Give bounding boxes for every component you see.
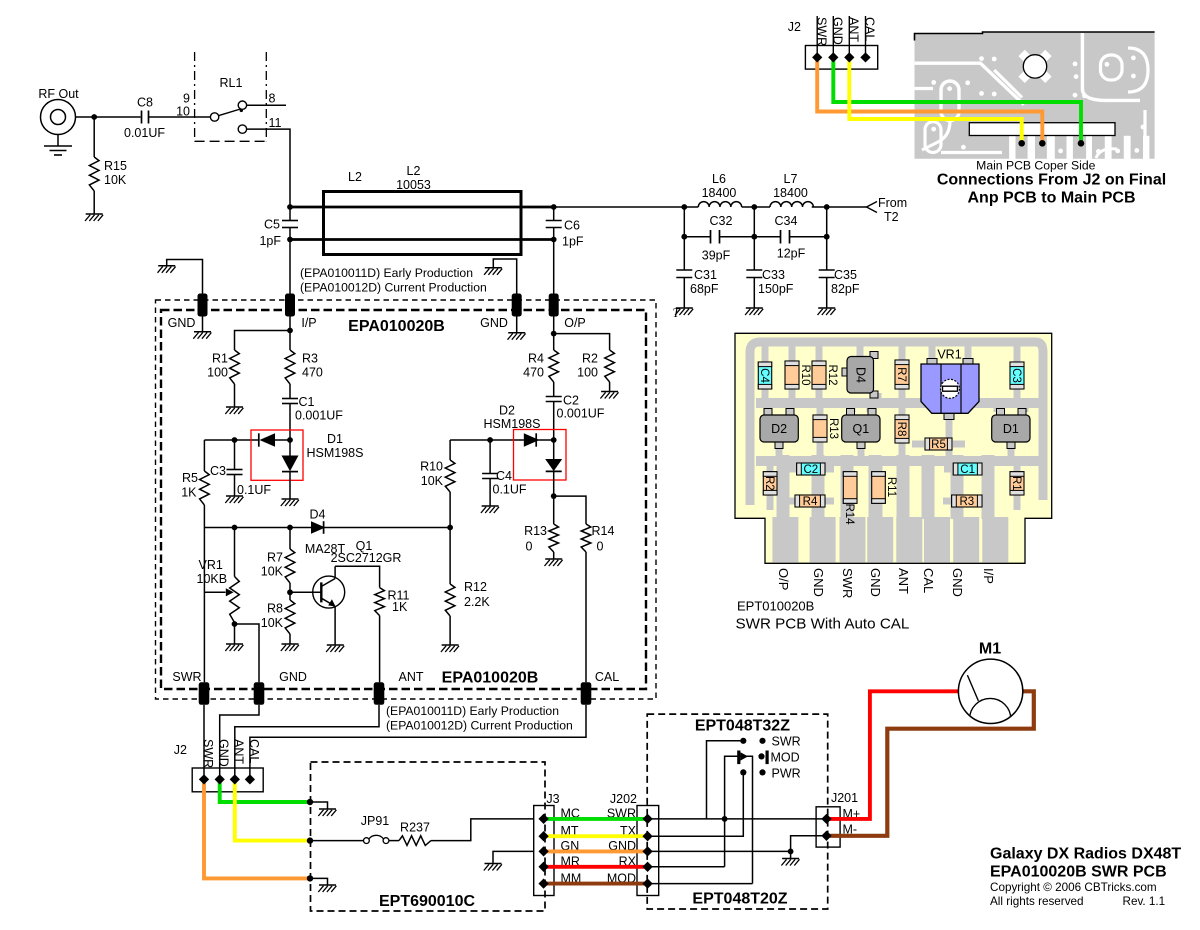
capacitor C33 150pF — [746, 268, 794, 308]
PCB part R4 — [795, 495, 825, 508]
resistor R237 — [399, 821, 431, 846]
PCB part R3 — [952, 495, 982, 508]
RL1 pin labels 9 10 8 11 — [176, 92, 281, 131]
wire D2 row — [450, 439, 524, 441]
ground under R15 — [86, 213, 103, 215]
ground under left GND terminal — [194, 331, 211, 333]
ground under R12 — [442, 644, 459, 646]
resistor R14 0 — [581, 524, 614, 554]
svg-text:C2: C2 — [803, 464, 818, 476]
J2 rotated pin labels SWR GND ANT CAL — [814, 17, 876, 46]
ground stub green — [310, 802, 328, 809]
svg-text:R10: R10 — [799, 364, 811, 385]
node D1 center — [287, 437, 293, 443]
svg-text:C6: C6 — [564, 219, 580, 233]
wire GND terminal to J2 — [220, 705, 259, 780]
wire yellow TX J3 to J202 — [545, 834, 648, 838]
Main PCB outline edge — [915, 32, 1155, 41]
wire R14 branch — [554, 496, 586, 524]
wire RF node to C8 — [94, 116, 140, 118]
pad dot SWR right — [759, 738, 765, 744]
wire R2 branch — [554, 334, 610, 350]
wire D1 row — [204, 439, 258, 441]
svg-text:VR1: VR1 — [937, 348, 961, 362]
capacitor C34 12pF — [754, 214, 826, 261]
ground under Q1 emitter — [327, 644, 344, 646]
PCB part R10 — [785, 361, 811, 389]
svg-text:R4: R4 — [528, 352, 544, 366]
wire RL1 pin 8 stub — [247, 104, 286, 106]
svg-text:SWR: SWR — [814, 17, 828, 46]
EPT010020B pin labels — [776, 568, 996, 598]
label D2 HSM198S — [484, 404, 541, 432]
solder dot yellow wire — [1018, 140, 1025, 147]
wire R11 to ANT terminal — [379, 616, 381, 683]
svg-text:(EPA010011D) Early Production: (EPA010011D) Early Production — [300, 266, 473, 280]
svg-text:(EPA010012D) Current Productio: (EPA010012D) Current Production — [300, 281, 487, 295]
wire R5 bottom — [203, 505, 205, 528]
svg-text:R10: R10 — [420, 460, 443, 474]
node D2 center — [551, 437, 557, 443]
J2 connector box — [805, 46, 877, 70]
svg-text:From: From — [878, 196, 907, 210]
svg-text:R11: R11 — [885, 477, 897, 497]
PCB part R7 — [895, 360, 909, 389]
wire RL1 pin 11 to C5 node — [247, 129, 290, 207]
node L6 left — [681, 204, 687, 210]
node yellow wire end — [307, 837, 313, 843]
relay RL1 dashed box — [195, 52, 267, 141]
svg-text:C1: C1 — [299, 395, 315, 409]
wire node down C33 col — [753, 207, 755, 270]
ground under C35 — [818, 307, 835, 309]
resistor R2 100 — [577, 350, 614, 382]
svg-text:1pF: 1pF — [259, 234, 281, 248]
terminal GND (top-right) — [480, 294, 522, 331]
svg-text:SWR PCB With Auto CAL: SWR PCB With Auto CAL — [736, 616, 910, 633]
ground under R8 — [282, 643, 299, 645]
svg-text:18400: 18400 — [702, 186, 737, 200]
svg-text:R5: R5 — [182, 471, 198, 485]
wire red RX J3 to J202 — [545, 865, 648, 869]
capacitor C3 0.1UF — [210, 440, 271, 497]
svg-text:Copyright © 2006 CBTricks.com: Copyright © 2006 CBTricks.com — [990, 881, 1157, 894]
RL1 switch blade — [219, 109, 243, 116]
connector J201 box — [816, 807, 840, 847]
node R10/R12/D4 junction — [447, 525, 453, 531]
svg-text:10: 10 — [176, 105, 190, 119]
capacitor C2 0.001UF — [546, 382, 605, 440]
diode D2 horizontal (points right) — [524, 433, 554, 446]
connector J202 box — [637, 806, 659, 896]
wire R1 branch — [235, 331, 291, 351]
svg-text:R15: R15 — [104, 159, 127, 173]
svg-text:C2: C2 — [563, 394, 579, 408]
node VR1 top — [232, 525, 238, 531]
svg-text:C3: C3 — [1010, 368, 1022, 383]
EPT010020B board outline — [735, 333, 1052, 563]
svg-text:SWR: SWR — [172, 670, 201, 684]
L2 primary line — [290, 206, 554, 209]
svg-text:2SC2712GR: 2SC2712GR — [331, 551, 402, 565]
PCB part R11 — [872, 472, 897, 504]
svg-text:CAL: CAL — [595, 670, 619, 684]
svg-text:J3: J3 — [546, 792, 559, 806]
capacitor C5 1pF — [259, 207, 298, 248]
svg-text:R8: R8 — [895, 422, 907, 437]
svg-text:GND: GND — [279, 670, 307, 684]
PCB part D4 — [842, 352, 878, 399]
svg-text:GND: GND — [480, 316, 508, 330]
label D1 HSM198S — [307, 432, 364, 460]
wire brown MOD J3 to J202 — [545, 882, 648, 886]
pad dot PWR right — [759, 769, 765, 775]
svg-text:Q1: Q1 — [853, 422, 870, 436]
node R1 branch — [287, 328, 293, 334]
J201 pin M+ — [821, 814, 831, 824]
wire TX row riser to PWR — [648, 772, 744, 836]
wire orange J2 SWR to PCB — [817, 57, 1042, 143]
wire SWR rail — [203, 528, 205, 683]
resistor R1 100 — [207, 350, 239, 384]
red box around D1 — [251, 430, 303, 480]
J3 pin MM — [538, 878, 548, 888]
resistor R5 1K — [181, 471, 209, 505]
wire SWR jumper riser — [707, 741, 741, 819]
wire Q1 base — [290, 591, 321, 593]
ground near J3 — [485, 863, 502, 865]
svg-text:CAL: CAL — [921, 568, 936, 593]
resistor R11 1K — [375, 588, 410, 616]
J2 bottom connector box — [192, 768, 263, 792]
svg-text:C4: C4 — [496, 469, 512, 483]
terminal SWR — [172, 670, 209, 705]
ground under D1 — [282, 498, 299, 500]
svg-text:R3: R3 — [959, 496, 974, 508]
node C34 right — [824, 234, 830, 240]
resistor R4 470 — [523, 350, 558, 382]
svg-text:Main PCB Coper Side: Main PCB Coper Side — [976, 159, 1095, 173]
svg-text:D1: D1 — [1003, 422, 1019, 436]
potentiometer VR1 10KB — [197, 528, 240, 623]
wire R2 to ground — [609, 382, 611, 392]
svg-text:0.01UF: 0.01UF — [124, 126, 165, 140]
node R7 top — [287, 525, 293, 531]
wire O/P drop from L2 — [553, 240, 555, 295]
svg-text:2.2K: 2.2K — [464, 595, 490, 609]
diode D1 horizontal (points left) — [259, 433, 290, 446]
svg-text:39pF: 39pF — [702, 249, 731, 263]
MOD plug symbol right — [758, 751, 768, 765]
svg-text:8: 8 — [269, 92, 276, 106]
wire green SWR J3 to J202 — [545, 817, 648, 821]
svg-text:D4: D4 — [853, 367, 867, 383]
svg-text:L7: L7 — [784, 172, 798, 186]
svg-text:MOD: MOD — [771, 751, 800, 765]
svg-text:R1: R1 — [1010, 476, 1022, 491]
node C6 top — [551, 204, 557, 210]
svg-text:L2: L2 — [348, 170, 362, 184]
wire GND row to J201 M- — [791, 836, 827, 852]
J2 bottom pin 2 — [215, 774, 225, 784]
terminal GND (bottom) — [254, 670, 307, 705]
solder dot green wire — [1078, 140, 1085, 147]
node L7 right — [824, 204, 830, 210]
node C5 bottom — [287, 237, 293, 243]
connector J3 box — [534, 806, 554, 896]
wire SWR row to J201 M+ — [648, 818, 827, 820]
svg-text:C33: C33 — [762, 268, 785, 282]
capacitor C35 82pF — [819, 268, 860, 308]
solder dot orange wire — [1039, 140, 1046, 147]
svg-text:GND: GND — [168, 316, 196, 330]
svg-text:R7: R7 — [267, 551, 283, 565]
J3 pin MT — [538, 831, 548, 841]
J202 pin MOD — [642, 878, 652, 888]
svg-text:I/P: I/P — [981, 568, 996, 584]
svg-text:0.1UF: 0.1UF — [237, 483, 271, 497]
ground under R13 — [545, 558, 562, 560]
node L6/L7 junction — [751, 204, 757, 210]
ground under VR1 — [226, 643, 243, 645]
PCB part C2 — [797, 463, 825, 476]
PCB part R1 — [1010, 472, 1024, 495]
svg-text:EPT048T32Z: EPT048T32Z — [695, 718, 790, 735]
svg-text:EPT010020B: EPT010020B — [737, 598, 814, 613]
diode D1 vertical (points down) — [282, 440, 299, 499]
RL1 switch contacts — [210, 101, 246, 133]
node orange wire end — [307, 875, 313, 881]
connector RF Out (coax jack) — [38, 87, 94, 135]
outer dashed box (EPA010011D/12D) — [156, 300, 657, 699]
J202 pin TX — [642, 831, 652, 841]
svg-text:CAL: CAL — [862, 17, 876, 41]
wire yellow J2 ANT to PCB — [849, 57, 1021, 143]
wire JP91 to R237 — [389, 840, 399, 842]
wire CAL terminal to J2 — [250, 705, 586, 780]
node C32 left — [681, 234, 687, 240]
svg-text:J201: J201 — [831, 791, 858, 805]
wire green J2 GND to PCB — [833, 57, 1081, 143]
node VR1 bottom — [232, 621, 238, 627]
earth ground under RF Out — [44, 135, 72, 156]
ground under R2 — [601, 391, 618, 393]
capacitor C32 39pF — [684, 214, 754, 263]
svg-text:EPT048T20Z: EPT048T20Z — [692, 891, 787, 908]
terminal GND (top-left) — [168, 294, 208, 331]
Main PCB copper area — [915, 32, 1155, 159]
J2 pin 2 — [828, 52, 838, 62]
ground under C31 — [676, 307, 693, 309]
svg-text:R1: R1 — [212, 352, 228, 366]
dashed box EPT048T32Z — [647, 714, 828, 909]
ground pigtail left GND terminal — [158, 260, 203, 295]
svg-text:0: 0 — [597, 540, 604, 554]
svg-text:C31: C31 — [694, 268, 717, 282]
svg-text:EPT690010C: EPT690010C — [379, 893, 476, 910]
svg-text:C5: C5 — [264, 218, 280, 232]
ground under R1 — [226, 406, 243, 408]
node R14 branch — [551, 493, 557, 499]
PCB part D2 — [760, 409, 798, 449]
resistor R7 10K — [261, 528, 295, 601]
ground under C33 — [746, 307, 763, 309]
wire under right GND terminal — [516, 317, 518, 333]
capacitor C31 68pF — [676, 268, 719, 308]
jumper MOD wire box — [725, 756, 753, 883]
svg-text:L2: L2 — [407, 164, 421, 178]
capacitor C4 0.1UF — [482, 440, 527, 506]
svg-text:R14: R14 — [843, 503, 855, 525]
svg-text:R12: R12 — [826, 364, 838, 385]
diode D2 vertical (points down) — [545, 440, 562, 496]
inductor L6 18400 — [684, 172, 754, 207]
svg-text:GND: GND — [811, 568, 826, 597]
svg-text:GND: GND — [217, 739, 231, 767]
svg-text:1pF: 1pF — [562, 235, 584, 249]
svg-text:J2: J2 — [174, 743, 187, 757]
label Connections From J2 heading — [937, 172, 1166, 207]
PCB part Q1 — [842, 409, 880, 449]
svg-text:10K: 10K — [261, 616, 284, 630]
svg-text:O/P: O/P — [564, 316, 586, 330]
wire node down C35 col — [826, 207, 828, 270]
svg-text:10K: 10K — [421, 474, 444, 488]
svg-text:R13: R13 — [827, 418, 839, 439]
wire VR1 bottom to GND terminal — [235, 624, 260, 682]
resistor R15 10K — [89, 157, 127, 191]
svg-text:11: 11 — [269, 116, 282, 130]
J202 pin SWR — [642, 814, 652, 824]
J2 bottom pin 3 — [230, 774, 240, 784]
PCB part VR1 — [921, 348, 979, 420]
svg-text:M1: M1 — [979, 641, 1001, 658]
svg-text:RF Out: RF Out — [38, 87, 79, 101]
J201 pin M- — [821, 831, 831, 841]
svg-text:GND: GND — [868, 568, 883, 597]
svg-text:470: 470 — [302, 366, 323, 380]
svg-text:JP91: JP91 — [361, 814, 390, 828]
wire GND junction to ground — [790, 851, 792, 858]
svg-text:68pF: 68pF — [690, 282, 719, 296]
svg-text:R2: R2 — [763, 476, 775, 491]
svg-text:R13: R13 — [524, 524, 547, 538]
svg-text:C32: C32 — [710, 214, 733, 228]
jumper JP91 — [361, 814, 390, 843]
svg-text:SWR: SWR — [772, 735, 801, 749]
Main PCB slot rectangle — [969, 123, 1115, 136]
wire VR1 to ground — [234, 624, 236, 644]
svg-text:0.1UF: 0.1UF — [493, 483, 527, 497]
inductor L7 18400 — [754, 172, 826, 207]
PCB part R13 — [813, 415, 839, 442]
svg-text:ANT: ANT — [232, 739, 246, 764]
svg-text:J202: J202 — [610, 792, 637, 806]
L2 labels — [348, 164, 431, 192]
PCB part D1 — [992, 409, 1030, 449]
node green wire end — [307, 799, 313, 805]
resistor R8 10K — [261, 600, 295, 644]
svg-text:D1: D1 — [327, 432, 343, 446]
capacitor C1 0.001UF — [282, 384, 343, 440]
wire R237 to J3 — [431, 819, 534, 841]
wire I/P drop from L2 — [289, 240, 291, 295]
wire main lower row left — [204, 527, 311, 529]
L2 secondary line — [290, 238, 554, 241]
inner bold dashed box EPA010020B — [161, 310, 646, 689]
transformer L2 box — [324, 192, 522, 255]
svg-text:EPA010020B: EPA010020B — [442, 670, 539, 687]
J2 pin stems — [816, 16, 818, 57]
Main PCB bottom finger gaps — [1009, 136, 1015, 159]
PCB part C3 — [1010, 362, 1024, 389]
svg-text:C3: C3 — [210, 464, 226, 478]
svg-text:All rights reserved: All rights reserved — [990, 895, 1084, 908]
svg-text:EPA010020B SWR PCB: EPA010020B SWR PCB — [990, 864, 1167, 881]
J2 pin 3 — [844, 52, 854, 62]
svg-text:C8: C8 — [137, 96, 153, 110]
svg-text:Anp PCB to Main PCB: Anp PCB to Main PCB — [968, 190, 1136, 207]
J2 bottom pin 1 — [199, 774, 209, 784]
From T2 arrow and label — [867, 196, 908, 224]
svg-text:D2: D2 — [771, 422, 787, 436]
wire I/P to R3 — [289, 317, 291, 351]
wire under left GND terminal — [202, 317, 204, 332]
terminal I/P — [285, 294, 317, 331]
terminal ANT — [374, 670, 424, 705]
svg-text:D2: D2 — [499, 404, 515, 418]
capacitor C8 0.01UF — [124, 96, 165, 141]
svg-text:GND: GND — [830, 17, 844, 45]
J202 pin RX — [642, 862, 652, 872]
svg-text:C4: C4 — [758, 368, 770, 383]
svg-text:0.001UF: 0.001UF — [557, 407, 605, 421]
ground near green wire — [319, 808, 336, 810]
PCB part R12 — [812, 361, 838, 389]
Main PCB white traces — [915, 63, 1024, 104]
resistor R12 2.2K — [445, 528, 490, 646]
svg-text:VR1: VR1 — [199, 558, 223, 572]
wire R15 to ground — [93, 191, 95, 214]
svg-text:HSM198S: HSM198S — [307, 446, 364, 460]
wire SWR terminal to J2 — [203, 705, 205, 780]
pad dot SWR left — [740, 738, 746, 744]
svg-text:R2: R2 — [582, 352, 598, 366]
svg-text:GND: GND — [950, 568, 965, 597]
svg-text:10053: 10053 — [396, 178, 431, 192]
ground under C3 — [226, 495, 243, 497]
svg-text:R5: R5 — [931, 439, 946, 451]
ground under C4 — [482, 505, 499, 507]
node C5 top — [287, 204, 293, 210]
svg-text:RL1: RL1 — [220, 76, 243, 90]
svg-text:R14: R14 — [592, 524, 615, 538]
svg-text:CAL: CAL — [247, 739, 261, 763]
resistor R3 470 — [285, 350, 323, 384]
wire MOD row — [648, 883, 753, 885]
svg-text:I/P: I/P — [301, 316, 316, 330]
ground wire at J3 GN — [493, 851, 534, 863]
svg-text:ANT: ANT — [896, 568, 911, 594]
svg-text:C35: C35 — [834, 268, 857, 282]
pad dot PWR left — [740, 769, 746, 775]
wire brown M- to meter — [827, 691, 1034, 836]
junction dot SWR/jumper — [722, 816, 728, 822]
svg-text:SWR: SWR — [201, 739, 215, 768]
node at RF Out / C8 / R15 — [91, 114, 97, 120]
wire yellow J2 to JP91 — [235, 779, 310, 840]
wire node down C31 col — [683, 207, 685, 270]
